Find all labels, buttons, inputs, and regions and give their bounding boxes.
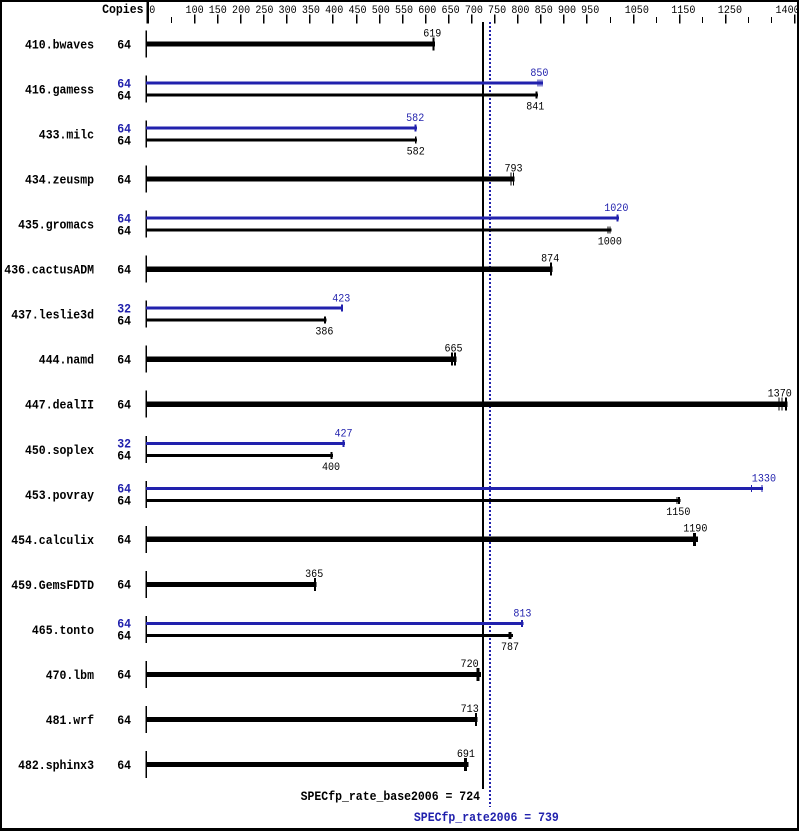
svg-text:500: 500: [372, 5, 390, 17]
group 454.calculix: [11, 524, 707, 553]
svg-text:1150: 1150: [666, 507, 690, 519]
group 434.zeusmp: [25, 164, 523, 193]
group 453.povray: [25, 473, 776, 518]
svg-text:64: 64: [117, 578, 131, 593]
svg-text:450.soplex: 450.soplex: [25, 443, 94, 458]
svg-text:436.cactusADM: 436.cactusADM: [4, 263, 94, 278]
group 416.gamess: [25, 68, 549, 113]
svg-text:453.povray: 453.povray: [25, 488, 94, 503]
reference line peak 739 (blue dotted): [489, 22, 491, 807]
group 450.soplex: [25, 428, 353, 473]
svg-text:250: 250: [255, 5, 273, 17]
svg-text:64: 64: [117, 88, 131, 103]
svg-text:582: 582: [407, 147, 425, 159]
svg-text:SPECfp_rate_base2006 = 724: SPECfp_rate_base2006 = 724: [301, 789, 480, 804]
svg-text:470.lbm: 470.lbm: [46, 668, 94, 683]
group 433.milc: [39, 113, 425, 158]
svg-text:64: 64: [117, 494, 131, 509]
group 447.dealII: [25, 389, 792, 418]
svg-text:400: 400: [322, 462, 340, 474]
svg-text:450: 450: [348, 5, 366, 17]
svg-text:64: 64: [117, 668, 131, 683]
svg-text:64: 64: [117, 133, 131, 148]
svg-text:1000: 1000: [598, 237, 622, 249]
svg-text:427: 427: [334, 428, 352, 440]
svg-text:350: 350: [302, 5, 320, 17]
svg-text:841: 841: [526, 102, 544, 114]
svg-text:800: 800: [511, 5, 529, 17]
svg-text:410.bwaves: 410.bwaves: [25, 38, 94, 53]
svg-text:950: 950: [581, 5, 599, 17]
group 459.GemsFDTD: [11, 569, 323, 598]
svg-text:64: 64: [117, 713, 131, 728]
svg-text:64: 64: [117, 398, 131, 413]
svg-text:1250: 1250: [718, 5, 742, 17]
svg-text:434.zeusmp: 434.zeusmp: [25, 173, 94, 188]
svg-text:416.gamess: 416.gamess: [25, 83, 94, 98]
svg-text:691: 691: [457, 749, 475, 761]
svg-text:64: 64: [117, 353, 131, 368]
svg-text:437.leslie3d: 437.leslie3d: [11, 308, 94, 323]
svg-text:900: 900: [558, 5, 576, 17]
svg-text:1150: 1150: [671, 5, 695, 17]
svg-text:433.milc: 433.milc: [39, 128, 94, 143]
svg-text:447.dealII: 447.dealII: [25, 398, 94, 413]
svg-text:787: 787: [501, 642, 519, 654]
svg-text:850: 850: [535, 5, 553, 17]
svg-text:Copies: Copies: [102, 2, 143, 17]
svg-text:64: 64: [117, 629, 131, 644]
group 481.wrf: [46, 704, 479, 733]
svg-text:444.namd: 444.namd: [39, 353, 94, 368]
svg-text:1400: 1400: [776, 5, 799, 17]
svg-text:64: 64: [117, 223, 131, 238]
svg-text:874: 874: [541, 254, 559, 266]
svg-text:1370: 1370: [768, 389, 792, 401]
svg-text:64: 64: [117, 449, 131, 464]
group 410.bwaves: [25, 28, 441, 57]
svg-text:650: 650: [442, 5, 460, 17]
svg-text:550: 550: [395, 5, 413, 17]
svg-text:365: 365: [305, 569, 323, 581]
svg-text:619: 619: [423, 28, 441, 40]
svg-text:481.wrf: 481.wrf: [46, 713, 94, 728]
group 482.sphinx3: [18, 749, 475, 778]
svg-text:1190: 1190: [683, 524, 707, 536]
svg-text:850: 850: [530, 68, 548, 80]
svg-text:582: 582: [406, 113, 424, 125]
svg-text:454.calculix: 454.calculix: [11, 533, 94, 548]
axis scale labels: [149, 5, 799, 17]
group 444.namd: [39, 344, 463, 373]
svg-text:300: 300: [279, 5, 297, 17]
svg-text:813: 813: [513, 609, 531, 621]
svg-text:700: 700: [465, 5, 483, 17]
svg-text:465.tonto: 465.tonto: [32, 623, 94, 638]
svg-text:459.GemsFDTD: 459.GemsFDTD: [11, 578, 94, 593]
svg-text:64: 64: [117, 758, 131, 773]
svg-text:600: 600: [418, 5, 436, 17]
svg-text:64: 64: [117, 314, 131, 329]
svg-text:400: 400: [325, 5, 343, 17]
svg-text:64: 64: [117, 262, 131, 277]
svg-text:713: 713: [461, 704, 479, 716]
svg-text:0: 0: [149, 5, 155, 17]
axis origin line: [146, 2, 149, 24]
svg-text:386: 386: [315, 327, 333, 339]
svg-text:1050: 1050: [625, 5, 649, 17]
svg-text:793: 793: [504, 164, 522, 176]
svg-text:SPECfp_rate2006 = 739: SPECfp_rate2006 = 739: [414, 810, 559, 825]
group 465.tonto: [32, 609, 532, 654]
svg-text:64: 64: [117, 533, 131, 548]
svg-text:64: 64: [117, 172, 131, 187]
axis tick marks: [171, 15, 795, 24]
svg-text:1330: 1330: [752, 473, 776, 485]
group 435.gromacs: [18, 203, 628, 248]
svg-text:64: 64: [117, 37, 131, 52]
group 437.leslie3d: [11, 293, 350, 338]
svg-text:720: 720: [461, 659, 479, 671]
svg-text:1020: 1020: [604, 203, 628, 215]
svg-text:482.sphinx3: 482.sphinx3: [18, 758, 94, 773]
svg-text:665: 665: [444, 344, 462, 356]
group 470.lbm: [46, 659, 481, 688]
svg-text:750: 750: [488, 5, 506, 17]
reference line base 724 (solid black): [482, 22, 484, 789]
group 436.cactusADM: [4, 254, 559, 283]
svg-text:435.gromacs: 435.gromacs: [18, 218, 94, 233]
svg-text:423: 423: [332, 293, 350, 305]
